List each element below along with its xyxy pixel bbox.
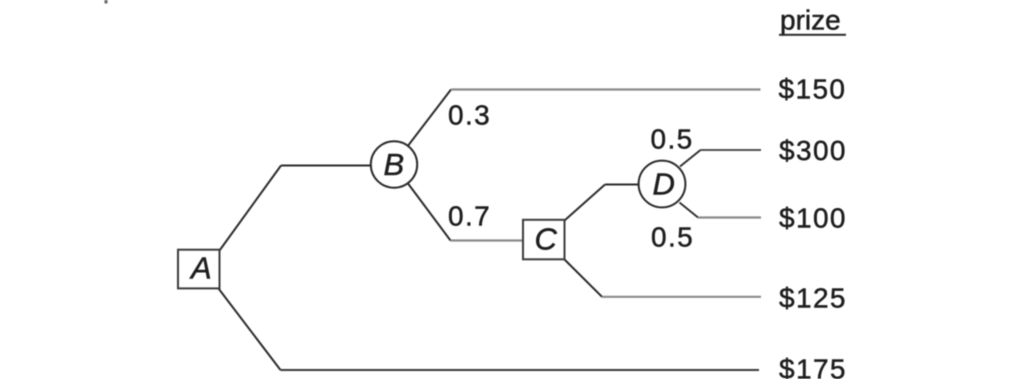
svg-text:A: A [189,251,212,286]
wire A to B horizontal [281,165,372,167]
branch B 0.3 horizontal to $150 [451,88,761,90]
svg-text:0.7: 0.7 [448,201,491,232]
svg-text:$175: $175 [779,354,847,379]
svg-text:B: B [384,147,405,182]
branch D lower horizontal to $100 [698,216,761,218]
node D chance circle [639,161,686,208]
branch D 0.5 lower diagonal [680,203,699,218]
branch C up diagonal [565,185,606,221]
svg-text:prize: prize [780,5,841,36]
branch D 0.5 upper diagonal [680,150,701,167]
wire A to B diagonal [220,166,282,251]
svg-text:0.3: 0.3 [448,99,491,130]
svg-text:$125: $125 [779,283,847,314]
svg-text:$150: $150 [779,73,847,104]
node B chance circle [371,141,417,187]
horizontal to $175 [281,369,760,371]
column header prize [779,5,846,36]
svg-text:$300: $300 [779,135,847,166]
svg-text:D: D [653,167,675,202]
horizontal to $125 [602,296,761,298]
svg-text:0.5: 0.5 [651,221,694,252]
branch C down diagonal [565,260,603,297]
branch B 0.7 diagonal [408,184,451,241]
svg-text:0.5: 0.5 [651,124,694,155]
stray tick mark top-left [105,0,108,4]
branch A down diagonal [219,289,281,371]
wire to C horizontal [451,239,524,241]
branch D upper horizontal to $300 [701,149,762,151]
wire to D horizontal [605,184,639,186]
svg-text:$100: $100 [779,203,847,234]
branch B 0.3 diagonal [408,90,451,147]
node A decision square [178,250,220,289]
node C decision square [523,220,565,259]
svg-text:C: C [535,222,558,257]
